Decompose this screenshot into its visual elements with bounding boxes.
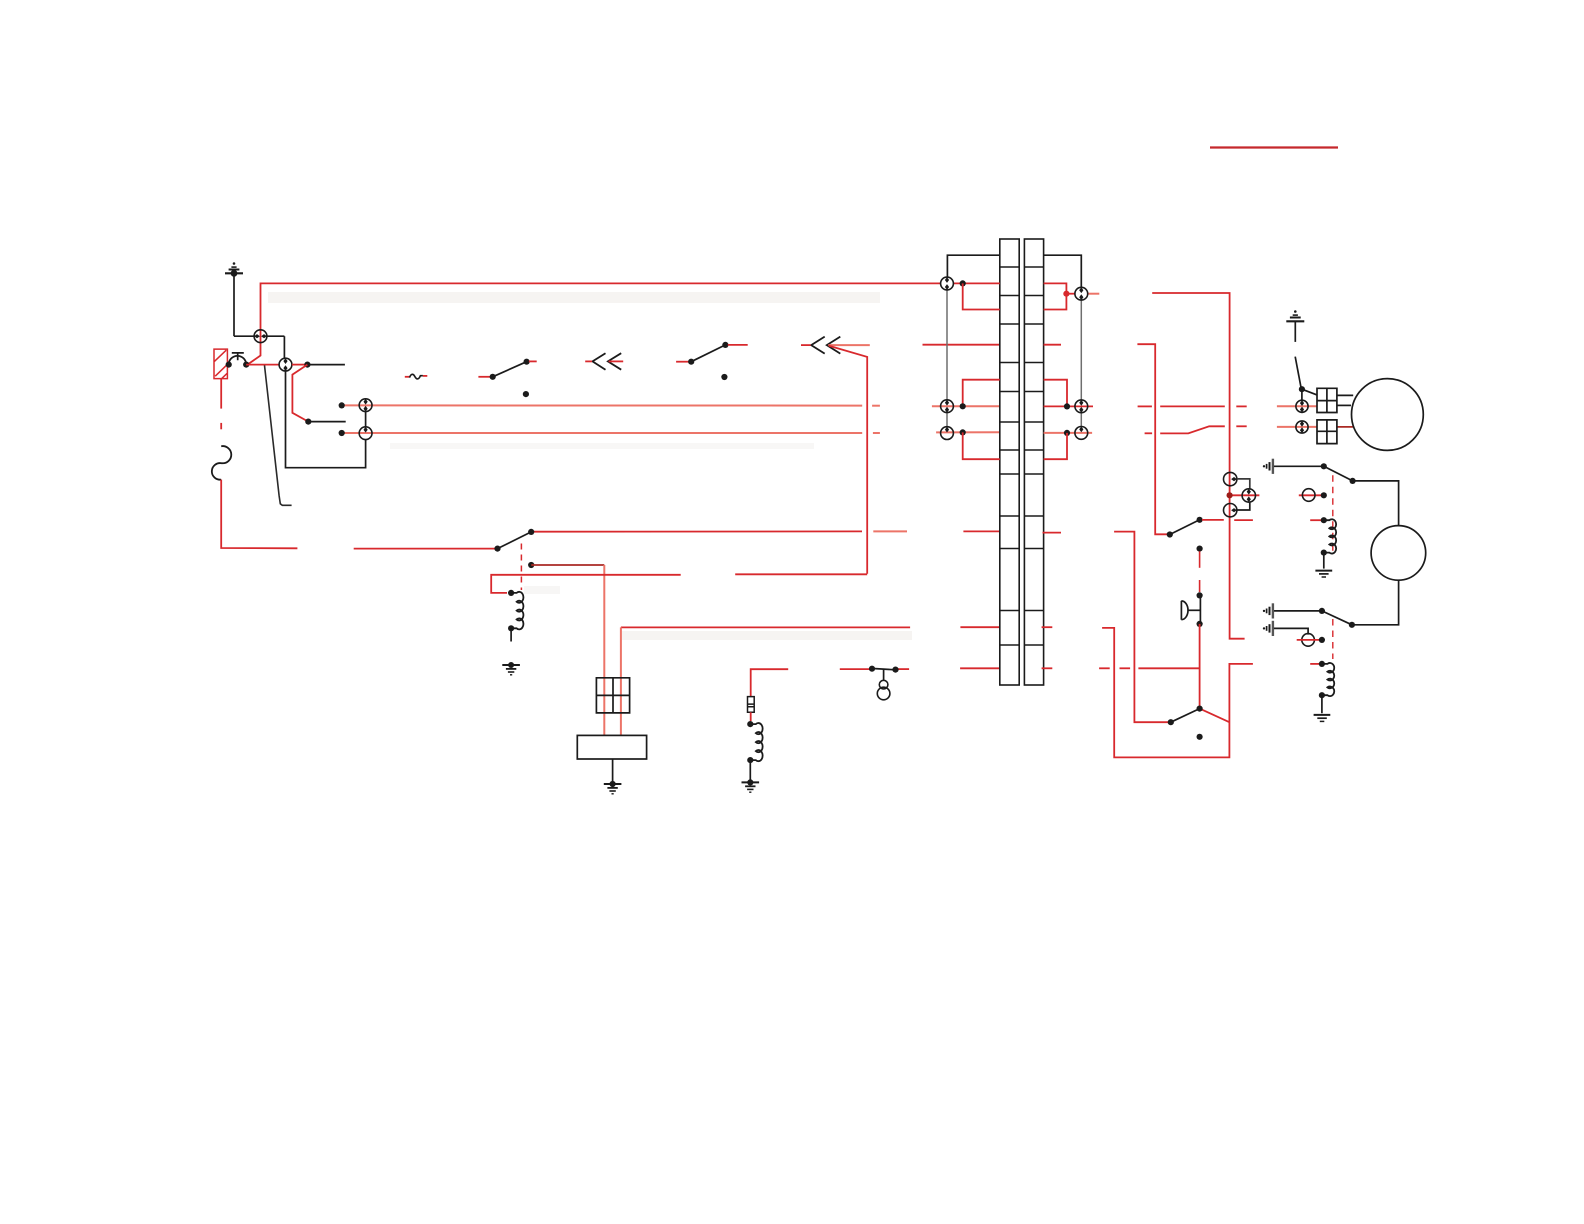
wire [423,375,427,377]
wire [963,432,1000,459]
coil L1 [751,723,762,761]
wire [1044,433,1067,459]
choke link [1332,619,1334,659]
wire [932,405,1000,407]
wire [1230,494,1260,496]
wire [603,565,605,735]
connector [941,400,954,413]
wire [1044,283,1067,309]
connector [941,277,954,290]
junction [1197,517,1203,523]
wire [234,335,254,337]
wire [609,360,624,362]
ground [604,781,622,794]
connector [359,427,372,440]
wire [1297,639,1321,641]
connector pair [593,353,622,370]
wire [1310,519,1324,521]
junction [1168,719,1174,725]
link [946,413,948,427]
wire [585,360,592,362]
coil L3 [1323,663,1334,696]
junction [1064,403,1070,409]
contact [523,391,529,397]
junction [528,529,534,535]
lamp LP1 bar [871,668,897,670]
faint text band [268,292,880,303]
junction [494,546,500,552]
fuse F2 [410,374,423,379]
faint text band [622,631,912,640]
wire [872,405,880,407]
lamp LP2 [1371,526,1426,581]
switch SW9 blade [1295,357,1301,387]
junction [339,430,345,436]
wire [829,346,867,574]
junction [1319,661,1325,667]
switch SW8 blade [1322,611,1352,625]
wire [749,760,751,780]
wire [1302,389,1317,395]
wire [621,626,910,628]
connector [1075,287,1088,300]
junction [747,721,753,727]
wire [840,668,871,670]
connector block J2 [1317,388,1337,412]
wire [510,628,512,641]
wire [1337,404,1351,406]
switch SW7 blade [1324,466,1353,481]
wire [620,627,622,735]
wire [405,376,410,378]
wire [1152,293,1244,639]
battery BAT [577,735,646,759]
junction [1167,531,1173,537]
connector [1242,489,1255,502]
wire [954,282,1000,284]
wire [342,432,863,434]
fuse F3 [748,697,755,713]
wire [246,364,279,366]
junction [508,625,514,631]
junction [869,666,875,672]
wire [491,575,681,593]
junction [528,562,534,568]
horn H1 [1181,601,1188,620]
wire [947,255,999,277]
wire [1323,553,1325,569]
wire [531,564,604,566]
wire [342,404,863,406]
junction [1299,386,1305,392]
switch SW6 blade [1171,709,1200,723]
junction [1197,706,1203,712]
horn link [1199,551,1201,568]
connector block J1 [1000,239,1044,685]
wire [1294,321,1296,342]
fuse box [596,678,629,713]
wire [1299,494,1321,496]
wire [728,344,748,346]
wire [354,548,498,550]
switch SW3 blade [691,345,725,362]
contact [1197,734,1203,740]
wire [873,530,907,532]
wire [751,669,789,696]
wire [307,364,345,366]
connector [1224,504,1237,517]
ground [1315,571,1332,577]
wire [1337,426,1353,428]
wire [1237,479,1250,489]
relay link [520,544,522,591]
wire [801,344,811,346]
wire [221,480,297,549]
ground [1263,603,1273,618]
link [1080,413,1082,427]
wire [267,335,285,337]
junction [960,403,966,409]
faint text band [390,443,814,449]
wire [1137,344,1169,534]
junction [1321,517,1327,523]
junction [747,757,753,763]
wire [1102,628,1253,758]
wire [220,423,222,429]
relay RL1 coil [512,592,523,630]
ground [502,662,520,675]
wire [1301,389,1303,400]
junction [1197,621,1203,627]
wire [531,530,862,532]
junction [339,402,345,408]
fuse F1 [214,349,227,379]
wire [1088,293,1100,295]
lamp LP3 headlight [1352,379,1424,451]
wire [676,361,688,363]
wire [960,626,999,628]
connector [1302,634,1315,647]
junction [1063,291,1069,297]
junction [490,374,496,380]
wire [936,431,1000,433]
junction [1349,622,1355,628]
junction [688,359,694,365]
link [1080,300,1082,400]
wire [612,759,614,781]
junction [1321,550,1327,556]
contact [721,374,727,380]
wire [1274,610,1322,612]
wire [292,365,308,422]
junction [1319,637,1325,643]
junction [226,362,232,368]
switch SW1 key [232,353,244,360]
wire [1044,344,1061,346]
wire [873,432,880,434]
wire [1043,532,1062,534]
wire [1042,667,1053,669]
lamp LP1 [877,680,890,700]
flexible link [212,446,231,480]
wire [1145,432,1153,434]
connector [941,427,954,440]
wire [897,668,910,670]
wire [1353,481,1399,526]
wire [1321,695,1323,713]
junction [722,342,728,348]
ground [1286,310,1304,321]
junction [1321,463,1327,469]
wire [883,669,885,680]
wire [1200,709,1230,723]
wire [1277,405,1317,407]
junction [1319,692,1325,698]
wire [1044,405,1093,407]
switch SW1 arc [229,356,247,365]
coil L2 [1325,519,1336,553]
wire [1237,502,1250,510]
wire [1042,626,1053,628]
horn H1 lead [1188,609,1201,611]
wire [233,273,235,336]
wire [1138,405,1152,407]
connector [1075,427,1088,440]
wire [735,573,867,575]
connector [1302,489,1315,502]
wire [1236,405,1246,407]
connector [254,330,267,343]
ground [225,262,243,276]
switch SW4 blade [498,532,532,549]
wire [220,379,222,409]
link [946,290,948,400]
connector pair [811,337,840,354]
connector [1296,421,1308,433]
ground [1263,459,1273,474]
junction [960,429,966,435]
junction [305,419,311,425]
wire [529,360,537,362]
wire [1199,624,1201,709]
wire [292,364,308,366]
wire [750,712,752,721]
wire [960,667,1000,669]
wire [286,371,366,468]
ground [1263,621,1273,636]
wire [283,336,285,358]
wire [1234,519,1253,521]
wire [1120,667,1131,669]
junction [243,362,249,368]
wire [963,380,1000,407]
ground [742,779,760,792]
wire [1352,580,1399,625]
junction [1197,592,1203,598]
connector [279,358,292,371]
horn H1 bar [1199,597,1201,622]
ground [1314,715,1331,722]
wire [1310,663,1322,665]
wire [308,421,345,423]
wire [923,344,1000,346]
switch SW2 blade [493,362,527,377]
faint text band [524,586,560,594]
junction [524,359,530,365]
junction [1350,478,1356,484]
switch SW5 blade [1170,520,1200,535]
wire [1114,532,1171,723]
wire [1044,380,1067,407]
connector [359,399,372,412]
switch SW1 blade [265,365,292,505]
wire [1160,405,1225,407]
wire [1066,293,1075,295]
wire [1099,667,1110,669]
wire [1044,432,1093,434]
wire [963,283,1000,309]
connector [1224,472,1237,485]
junction [304,362,310,368]
connector [1075,400,1088,413]
junction [1321,492,1327,498]
wire [963,530,999,532]
junction [960,280,966,286]
junction [892,667,898,673]
wire [365,412,367,427]
wire [1138,667,1199,669]
wire [1277,426,1317,428]
wire [1337,394,1353,396]
junction [1064,430,1070,436]
wire [248,283,941,364]
junction [1227,492,1233,498]
wire [939,282,941,284]
wire [1274,465,1324,467]
connector block J3 [1317,420,1337,444]
wire [1160,426,1225,433]
horn link [1199,580,1201,592]
wire [478,376,490,378]
wire [1202,519,1224,521]
wire [1274,628,1308,634]
junction [1319,608,1325,614]
connector [1296,400,1308,412]
title underline [1210,146,1338,148]
wire [828,344,870,346]
junction [508,590,514,596]
wire [1044,255,1082,287]
wire [1236,425,1246,427]
choke link [1332,475,1334,551]
junction [1197,546,1203,552]
